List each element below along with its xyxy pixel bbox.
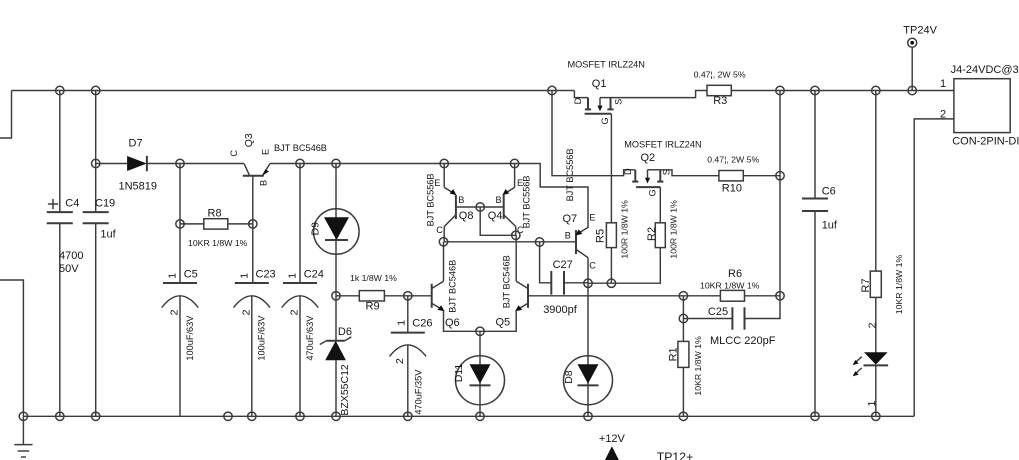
- resistor R5 100R: [594, 200, 629, 283]
- svg-text:470uF/63V: 470uF/63V: [305, 315, 315, 361]
- wire R6 left to C25 row: [682, 296, 684, 319]
- svg-text:E: E: [434, 178, 440, 188]
- svg-text:1: 1: [395, 320, 407, 326]
- junction bottom R1: [679, 412, 687, 420]
- junction Q7 base / C27: [535, 238, 543, 246]
- transistor Q7 BJT BC556B: [563, 148, 597, 283]
- ground: [14, 416, 32, 457]
- wire Q5 base rail (3900pf row): [528, 295, 720, 297]
- capacitor C19: [83, 91, 117, 417]
- junction top rail TP24V: [908, 86, 916, 94]
- svg-text:S: S: [661, 169, 671, 175]
- junction bottom C24: [296, 412, 304, 420]
- svg-text:C23: C23: [256, 268, 276, 280]
- wire 24V sense column x780: [745, 91, 781, 319]
- svg-text:1: 1: [866, 401, 878, 407]
- svg-text:TP12+: TP12+: [657, 450, 694, 460]
- svg-text:C25: C25: [708, 306, 728, 318]
- svg-text:100R 1/8W 1%: 100R 1/8W 1%: [668, 200, 678, 259]
- svg-text:0.47¦, 2W 5%: 0.47¦, 2W 5%: [707, 155, 759, 165]
- svg-text:1: 1: [940, 78, 946, 90]
- junction mid rail C24: [296, 159, 304, 167]
- transistor Q3 BJT BC546B: [180, 133, 327, 224]
- diode D9 (circled): [310, 164, 360, 296]
- svg-text:Q2: Q2: [641, 152, 656, 164]
- resistor R9 1k: [336, 273, 432, 312]
- svg-text:C4: C4: [65, 197, 79, 209]
- transistor Q5 BJT BC546B: [480, 235, 528, 331]
- junction mid rail Q4 emitter: [510, 159, 518, 167]
- svg-text:Q8: Q8: [459, 210, 474, 222]
- mosfet Q1 IRLZ24N: [568, 60, 708, 125]
- svg-text:R9: R9: [366, 300, 380, 312]
- svg-text:D11: D11: [453, 364, 465, 383]
- svg-text:BJT BC546B: BJT BC546B: [274, 143, 327, 153]
- svg-text:G: G: [600, 117, 610, 124]
- junction bottom C19: [92, 412, 100, 420]
- svg-text:D: D: [623, 168, 633, 175]
- junction top rail R7: [872, 86, 880, 94]
- svg-text:1k 1/8W 1%: 1k 1/8W 1%: [350, 273, 397, 283]
- junction mid rail D9: [332, 159, 340, 167]
- svg-text:1uf: 1uf: [100, 229, 116, 241]
- svg-text:2: 2: [394, 358, 406, 364]
- svg-text:C24: C24: [304, 268, 324, 280]
- svg-text:R5: R5: [594, 229, 606, 243]
- junction Q8/Q4 bases: [476, 203, 484, 211]
- svg-text:470uF/35V: 470uF/35V: [413, 369, 423, 415]
- svg-text:100uF/63V: 100uF/63V: [257, 315, 267, 361]
- svg-text:BZX55C12: BZX55C12: [339, 364, 351, 416]
- junction bottom C26: [404, 412, 412, 420]
- junction D7 cathode: [176, 159, 184, 167]
- svg-text:1: 1: [287, 273, 299, 279]
- svg-text:R1: R1: [668, 347, 680, 361]
- wire base rail to Q7: [444, 241, 577, 243]
- resistor R7 10KR: [860, 91, 904, 353]
- wire shared base link Q8/Q4: [480, 207, 516, 235]
- svg-text:C: C: [589, 260, 596, 270]
- svg-text:10KR 1/8W 1%: 10KR 1/8W 1%: [693, 336, 703, 396]
- svg-text:E: E: [260, 149, 270, 155]
- svg-text:2: 2: [289, 309, 301, 315]
- svg-text:Q4: Q4: [488, 210, 503, 222]
- svg-text:E: E: [589, 212, 595, 222]
- svg-text:BJT BC556B: BJT BC556B: [565, 148, 575, 201]
- connector J4 CON-2PIN-DI: [914, 64, 1019, 416]
- transistor Q6 BJT BC546B: [432, 242, 480, 331]
- junction bottom LED: [872, 412, 880, 420]
- junction D9/D6/R9: [332, 292, 340, 300]
- svg-text:C: C: [517, 225, 524, 235]
- svg-text:0.47¦, 2W 5%: 0.47¦, 2W 5%: [694, 69, 746, 79]
- resistor R2 100R: [646, 200, 679, 259]
- svg-text:C: C: [229, 150, 239, 157]
- diode D8 (circled): [563, 283, 613, 416]
- junction R10 right: [776, 172, 784, 180]
- svg-text:Q1: Q1: [592, 78, 607, 90]
- junction R6 left: [679, 292, 687, 300]
- capacitor C25 MLCC 220pF: [683, 306, 775, 347]
- wire top rail right of R3: [731, 90, 954, 92]
- wire bottom ground rail: [23, 415, 914, 417]
- svg-text:B: B: [565, 231, 571, 241]
- mosfet Q2 IRLZ24N: [623, 140, 719, 197]
- svg-text:R10: R10: [722, 182, 742, 194]
- svg-text:B: B: [458, 195, 464, 205]
- svg-text:2: 2: [169, 309, 181, 315]
- svg-text:100R 1/8W 1%: 100R 1/8W 1%: [619, 200, 629, 259]
- resistor R1 10KR: [668, 319, 703, 417]
- junction Q4 collector tie: [512, 231, 520, 239]
- junction R8 right / Q3 base: [249, 220, 257, 228]
- junction C27/Q7 collector/D8: [584, 279, 592, 287]
- wire Q1 drain feed / Q2 drain feed: [552, 91, 635, 176]
- junction mid rail Q8 emitter: [440, 159, 448, 167]
- svg-text:1: 1: [239, 273, 251, 279]
- svg-text:BJT BC546B: BJT BC546B: [502, 255, 512, 308]
- svg-text:3900pf: 3900pf: [543, 304, 578, 316]
- junction top rail x780: [776, 86, 784, 94]
- LED (R7 branch): [853, 352, 889, 416]
- junction bottom spare: [224, 412, 232, 420]
- transistor Q4 BJT BC556B: [480, 164, 531, 236]
- svg-text:S: S: [613, 99, 623, 105]
- wire Q1 gate to R5: [610, 114, 612, 223]
- svg-text:D6: D6: [338, 326, 352, 338]
- junction top rail C19: [92, 86, 100, 94]
- svg-text:BJT BC546B: BJT BC546B: [447, 260, 457, 313]
- svg-text:C: C: [436, 225, 443, 235]
- junction top rail C4: [56, 86, 64, 94]
- junction D7 anode: [92, 159, 100, 167]
- resistor R10 0.47R 2W: [707, 155, 780, 195]
- resistor R3 0.47R 2W: [694, 69, 746, 107]
- svg-text:4700: 4700: [59, 250, 83, 262]
- svg-text:R8: R8: [208, 208, 222, 220]
- wire top-left entry: [0, 91, 12, 139]
- diode D7 1N5819: [96, 138, 180, 193]
- svg-text:10KR 1/8W 1%: 10KR 1/8W 1%: [188, 238, 248, 248]
- svg-text:Q6: Q6: [445, 317, 460, 329]
- junction top rail Q1: [548, 86, 556, 94]
- svg-text:Q5: Q5: [496, 317, 511, 329]
- svg-text:D: D: [573, 97, 583, 104]
- svg-text:100uF/63V: 100uF/63V: [185, 315, 195, 361]
- power port +12V: [599, 433, 626, 460]
- svg-text:2: 2: [866, 322, 878, 328]
- resistor R8 10KR: [180, 208, 253, 249]
- junction R6 right: [776, 292, 784, 300]
- resistor R6 10KR: [700, 268, 780, 301]
- junction bottom D6: [332, 412, 340, 420]
- junction bottom D8: [584, 412, 592, 420]
- svg-text:CON-2PIN-DI: CON-2PIN-DI: [952, 136, 1019, 148]
- capacitor C6 1uf: [802, 91, 838, 417]
- junction Q8 collector: [439, 238, 447, 246]
- junction bottom C23: [248, 412, 256, 420]
- svg-text:R2: R2: [646, 227, 658, 241]
- junction R8 left: [176, 220, 184, 228]
- wire R5/R2 bottom row: [588, 248, 660, 284]
- svg-text:2: 2: [241, 309, 253, 315]
- svg-text:C27: C27: [553, 259, 573, 271]
- svg-text:MOSFET IRLZ24N: MOSFET IRLZ24N: [624, 140, 701, 150]
- junction C25/R1: [679, 314, 687, 322]
- svg-text:10KR 1/8W 1%: 10KR 1/8W 1%: [894, 255, 904, 315]
- svg-text:50V: 50V: [59, 263, 79, 275]
- svg-text:Q3: Q3: [243, 133, 255, 147]
- svg-text:R3: R3: [713, 95, 727, 107]
- transistor Q8 BJT BC556B: [425, 164, 480, 242]
- diode D11 (circled): [453, 331, 505, 416]
- capacitor C24 470uF/63V: [282, 164, 324, 417]
- zener D6 BZX55C12: [320, 296, 352, 417]
- junction R9/C26/Q6 base: [404, 292, 412, 300]
- svg-text:TP24V: TP24V: [903, 25, 937, 37]
- svg-text:1N5819: 1N5819: [119, 180, 158, 192]
- svg-text:C26: C26: [412, 318, 432, 330]
- junction Q6/Q5 emitters: [476, 327, 484, 335]
- svg-text:R6: R6: [728, 268, 742, 280]
- junction bottom C6: [811, 412, 819, 420]
- svg-text:B: B: [258, 180, 268, 186]
- wire mid rail (emitter row): [270, 164, 588, 229]
- svg-text:R7: R7: [860, 278, 872, 292]
- svg-text:Q7: Q7: [563, 213, 578, 225]
- capacitor C26 470uF/35V: [390, 296, 433, 417]
- svg-text:B: B: [496, 195, 502, 205]
- capacitor C27 3900pf: [540, 242, 588, 316]
- svg-text:1uf: 1uf: [822, 220, 838, 232]
- capacitor C5 100uF/63V: [162, 164, 199, 417]
- junction top rail C6: [811, 86, 819, 94]
- svg-text:J4-24VDC@3A: J4-24VDC@3A: [951, 64, 1019, 76]
- svg-text:+12V: +12V: [599, 433, 626, 445]
- wire top rail (24V): [12, 90, 575, 92]
- junction bottom D11: [476, 412, 484, 420]
- junction R5 bottom: [607, 279, 615, 287]
- svg-text:G: G: [647, 189, 657, 196]
- svg-text:E: E: [517, 178, 523, 188]
- junction bottom ground: [19, 412, 27, 420]
- wire bottom-left entry: [0, 280, 23, 416]
- junction bottom C4: [56, 412, 64, 420]
- svg-text:D7: D7: [129, 138, 143, 150]
- svg-text:C19: C19: [95, 197, 115, 209]
- svg-text:1: 1: [167, 273, 179, 279]
- capacitor C23 100uF/63V: [234, 224, 276, 416]
- test point TP24V: [903, 25, 937, 91]
- wire Q2 gate to R2: [659, 187, 661, 223]
- svg-text:MOSFET IRLZ24N: MOSFET IRLZ24N: [568, 60, 645, 70]
- svg-text:D8: D8: [563, 370, 575, 384]
- svg-text:D9: D9: [310, 222, 322, 236]
- svg-text:2: 2: [940, 108, 946, 120]
- capacitor C4: [47, 91, 84, 417]
- svg-text:C5: C5: [184, 268, 198, 280]
- svg-text:10KR 1/8W 1%: 10KR 1/8W 1%: [700, 281, 760, 291]
- svg-text:MLCC 220pF: MLCC 220pF: [710, 335, 776, 347]
- svg-text:C6: C6: [822, 186, 836, 198]
